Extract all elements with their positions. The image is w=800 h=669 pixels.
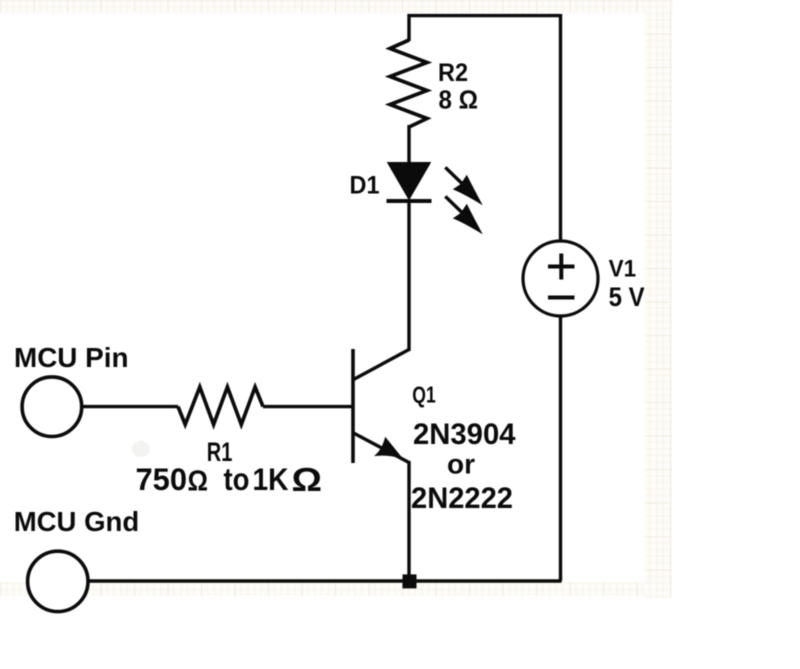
junction node (emitter / ground bus) — [403, 574, 417, 588]
svg-text:D1: D1 — [350, 172, 380, 200]
svg-text:R2: R2 — [438, 59, 468, 87]
resistor R1 — [178, 387, 263, 425]
wire: R1 to Q1 base — [263, 405, 353, 408]
wire right: top corner down to V1 top — [559, 14, 562, 241]
graph paper band bottom — [0, 582, 644, 596]
graph paper band top — [0, 0, 673, 13]
svg-text:1K: 1K — [253, 461, 289, 497]
svg-text:V1: V1 — [609, 256, 637, 283]
resistor R2 — [390, 40, 427, 127]
LED D1 light arrow 1 head — [454, 176, 480, 203]
svg-text:750: 750 — [136, 461, 188, 497]
voltage source V1 — [523, 241, 598, 316]
Q1 base bar — [351, 349, 355, 463]
Q1 collector diagonal — [354, 350, 410, 380]
svg-text:5 V: 5 V — [609, 282, 645, 312]
transistor Q1 (NPN) — [353, 349, 409, 463]
Q1 emitter diagonal — [354, 433, 410, 463]
V1 circle — [523, 241, 598, 316]
svg-text:8 Ω: 8 Ω — [439, 87, 479, 115]
svg-text:Ω: Ω — [188, 466, 209, 498]
LED D1 triangle — [388, 163, 430, 199]
svg-text:Q1: Q1 — [412, 382, 436, 408]
V1 minus sign — [548, 296, 575, 300]
svg-text:2N3904: 2N3904 — [413, 418, 516, 451]
wire: Q1 emitter corner down to bottom wire — [407, 461, 410, 581]
wire: R2 bottom lead to LED anode — [407, 125, 410, 165]
scan smudge artifact — [132, 441, 150, 457]
svg-text:or: or — [447, 449, 475, 480]
svg-text:to: to — [224, 461, 250, 497]
svg-text:Ω: Ω — [292, 462, 323, 499]
wire bottom: MCU Gnd to bottom-right corner — [88, 579, 562, 582]
svg-text:MCU Gnd: MCU Gnd — [14, 506, 140, 537]
graph paper band right — [645, 13, 672, 599]
terminal MCU Gnd — [28, 551, 88, 611]
LED D1 light arrow 1 shaft — [445, 167, 463, 184]
wire: LED cathode to Q1 collector corner — [407, 201, 410, 351]
LED D1 light arrow 2 shaft — [445, 196, 463, 213]
Q1 emitter arrowhead — [377, 439, 401, 458]
wire right: V1 bottom down to bottom-right corner — [559, 317, 562, 582]
wire: MCU Pin to R1 — [83, 405, 178, 408]
wire top: R2 top lead to top-right corner — [409, 16, 561, 41]
LED D1 symbol — [387, 163, 481, 233]
LED D1 light arrow 2 head — [454, 205, 480, 232]
V1 plus sign — [548, 254, 575, 280]
svg-text:2N2222: 2N2222 — [411, 482, 513, 515]
LED D1 cathode bar — [387, 199, 432, 203]
terminal MCU Pin — [22, 377, 82, 437]
svg-text:MCU Pin: MCU Pin — [14, 342, 129, 373]
